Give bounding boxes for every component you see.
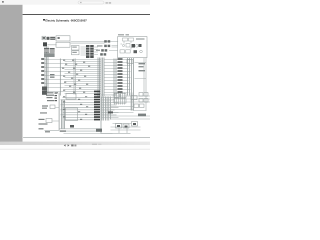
- toolbar icons: [106, 2, 108, 4]
- wire bundle top center: [71, 42, 119, 44]
- svg-text:Electric Schematic -000CD10007: Electric Schematic -000CD10007: [45, 19, 87, 23]
- ticks bottom-right boxes: [117, 125, 120, 127]
- wires to right edge: [129, 96, 151, 102]
- mid band verticals: [74, 59, 76, 95]
- left stubs: [41, 58, 44, 60]
- bottom center rows: [61, 97, 96, 120]
- left hatch boxes low: [42, 87, 47, 91]
- scroll arrows: [64, 144, 66, 146]
- wire label texture: [62, 60, 90, 120]
- address pill: [78, 1, 104, 4]
- schematic bottom edge: [23, 136, 150, 138]
- right mid boxes: [127, 60, 133, 64]
- mid-left marks: [50, 74, 55, 75]
- left vertical bundle: [45, 47, 48, 93]
- hatch whites over connector strips: [44, 38, 94, 55]
- tiny grey label texture bottom-left: [39, 92, 67, 132]
- wire rows bus-to-right stubs: [104, 60, 131, 93]
- tall rect bottom center: [66, 108, 78, 121]
- page: [23, 5, 150, 142]
- right stub column: [118, 58, 123, 60]
- fuse row box A: [42, 36, 46, 40]
- relay solid box: [43, 42, 47, 46]
- title rule: [23, 14, 150, 15]
- right edge vertical: [144, 58, 146, 111]
- center connector strips: [86, 45, 90, 58]
- wide relay box lower: [56, 42, 70, 47]
- fuse row hatched c: [50, 37, 55, 40]
- window dot: [2, 1, 4, 3]
- dark dash right of bus: [108, 111, 113, 113]
- relay output wire: [48, 39, 57, 45]
- bottom right rows: [111, 107, 151, 120]
- big box dark parts: [132, 44, 136, 48]
- center vertical bus: [98, 58, 111, 134]
- bottom cluster wires: [59, 124, 140, 134]
- bottom left wires: [45, 108, 60, 131]
- bottom-right cluster crossing verticals: [115, 93, 125, 105]
- connector to box wires: [109, 46, 118, 51]
- grey canvas left: [0, 5, 23, 142]
- inner boxes: [120, 38, 142, 53]
- big unit box top right: [118, 37, 147, 58]
- horizontal wire rows left-to-bus: [45, 60, 101, 92]
- hatched pair row1: [44, 48, 49, 53]
- strip side wires: [81, 47, 99, 55]
- right cluster boxes: [139, 93, 143, 97]
- hatched pair row2: [44, 53, 55, 57]
- bottom-left component boxes: [50, 105, 55, 109]
- bottom verticals right: [119, 93, 133, 134]
- right mid cluster marks: [139, 63, 146, 64]
- dark connector fills: [41, 37, 146, 132]
- box top of bottom-center: [66, 94, 76, 99]
- bottom stub column: [94, 91, 100, 93]
- status text: [92, 144, 97, 145]
- top toolbar strip: [0, 0, 150, 5]
- bottom center verticals: [62, 100, 65, 129]
- bottom small darks: [70, 125, 74, 128]
- box pair mid left: [72, 46, 80, 51]
- right stubs horizontals: [133, 63, 147, 111]
- verticals below big box: [114, 58, 134, 111]
- label ticks left cluster: [55, 93, 58, 94]
- top right paired connectors: [100, 40, 110, 55]
- wide relay box upper: [56, 36, 70, 41]
- bottom right pair boxes: [114, 94, 120, 98]
- tiny label texture top areas: [43, 34, 145, 53]
- title bullet: [43, 19, 45, 21]
- bottom connectors boxes: [116, 124, 122, 129]
- rows crossing bus rightward: [101, 95, 119, 118]
- viewer background: [0, 0, 150, 150]
- fuse row dark b: [47, 37, 50, 40]
- left page vertical: [59, 59, 60, 131]
